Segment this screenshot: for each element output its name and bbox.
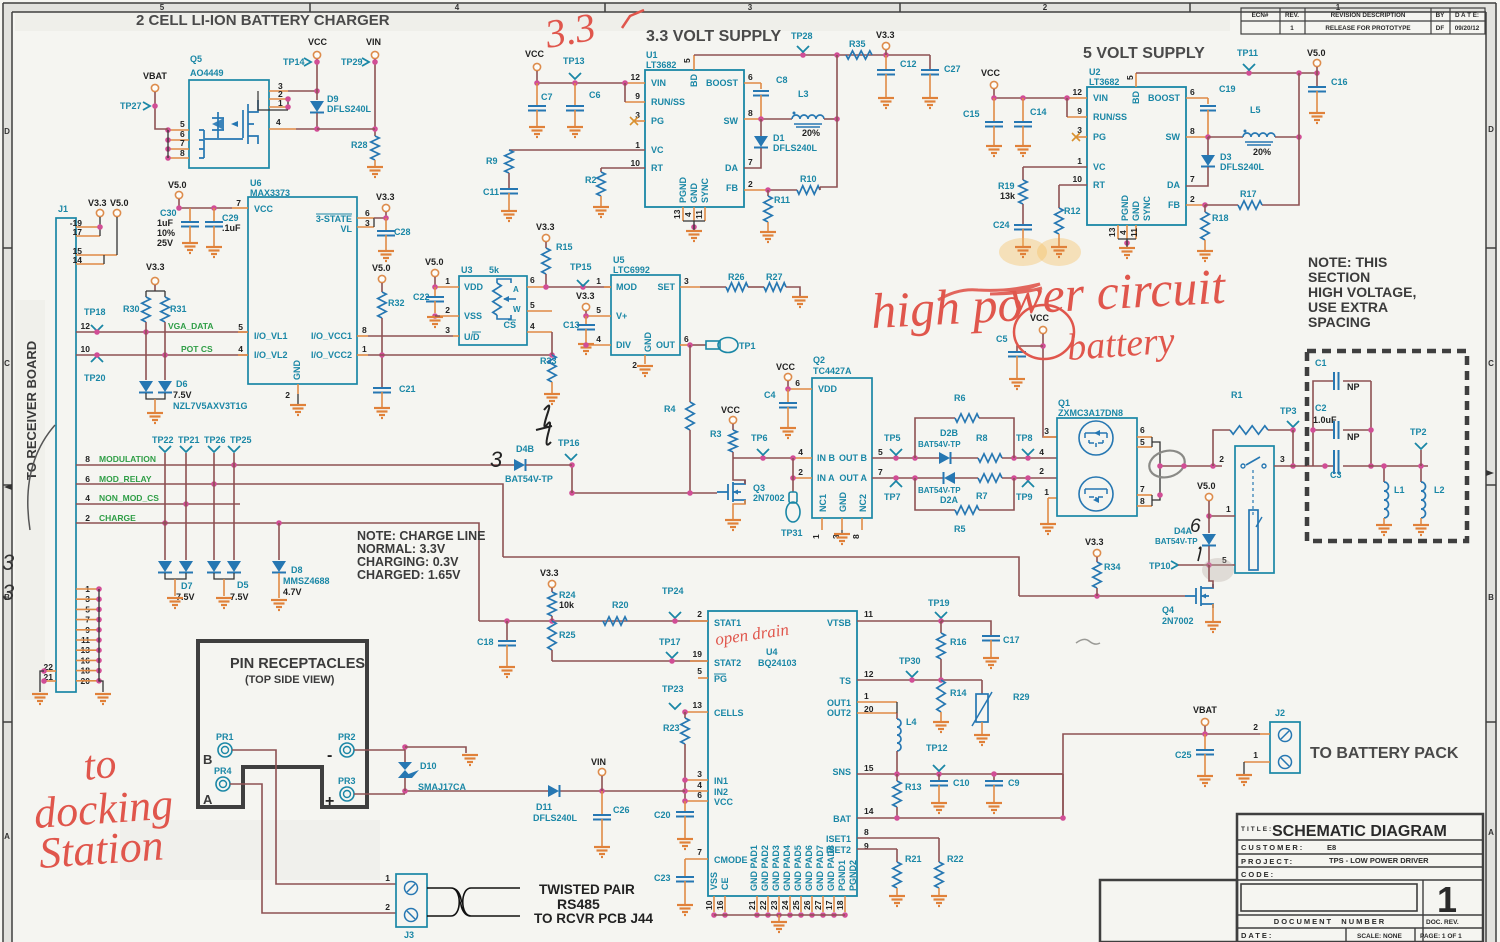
svg-text:C4: C4 (764, 390, 776, 400)
svg-text:PG: PG (651, 116, 664, 126)
svg-text:1: 1 (1437, 879, 1457, 920)
svg-text:V3.3: V3.3 (540, 568, 559, 578)
J1 bottom bracket to ground (99, 589, 103, 692)
ground below C12 (878, 98, 894, 108)
svg-text:A: A (513, 285, 519, 294)
svg-text:13k: 13k (1000, 191, 1016, 201)
U2 pins 13 4 11 (1117, 225, 1119, 239)
svg-text:1: 1 (864, 691, 869, 701)
svg-text:6: 6 (795, 378, 800, 388)
Q1 pins 7-8 bracket to out (1151, 495, 1153, 506)
ground below C5 (1009, 379, 1025, 389)
svg-text:3: 3 (684, 276, 689, 286)
highlight glow ground R12 (1037, 238, 1081, 266)
svg-text:L1: L1 (1394, 485, 1405, 495)
svg-text:D3: D3 (1220, 152, 1232, 162)
ground below C9 (986, 803, 1002, 813)
svg-text:D1: D1 (773, 133, 785, 143)
svg-text:DFLS240L: DFLS240L (327, 104, 372, 114)
wire D9 to pin4 row (296, 113, 317, 129)
wire U4 bottom pins join (714, 914, 845, 916)
svg-text:3: 3 (1280, 454, 1285, 464)
ground below C17 (983, 658, 999, 668)
svg-text:TP29: TP29 (341, 57, 363, 67)
svg-text:09/20/12: 09/20/12 (1455, 25, 1480, 32)
svg-text:1: 1 (385, 873, 390, 883)
wire C2 left vertical (1310, 427, 1316, 433)
svg-text:1: 1 (1077, 156, 1082, 166)
wire V3.3 to pins 19 17 (99, 217, 101, 236)
diode D1 DFLS240L (754, 136, 768, 147)
svg-text:MOD: MOD (616, 282, 637, 292)
svg-text:D2B: D2B (940, 428, 959, 438)
svg-text:5: 5 (682, 58, 692, 63)
svg-text:R28: R28 (351, 140, 368, 150)
svg-text:TO RECEIVER BOARD: TO RECEIVER BOARD (24, 341, 39, 480)
svg-text:RUN/SS: RUN/SS (651, 97, 685, 107)
svg-text:SMAJ17CA: SMAJ17CA (418, 782, 467, 792)
svg-text:DOC. REV.: DOC. REV. (1426, 919, 1459, 926)
svg-text:DFLS240L: DFLS240L (773, 143, 818, 153)
svg-text:OUT: OUT (656, 340, 676, 350)
wire J2 pin1 to ground (1243, 762, 1245, 774)
ground right of PR2 (462, 755, 478, 765)
svg-text:VIN: VIN (591, 757, 606, 767)
svg-text:GND PAD5: GND PAD5 (793, 845, 803, 891)
wire MOD row (548, 286, 611, 288)
svg-text:R3: R3 (710, 429, 722, 439)
svg-text:LT3682: LT3682 (1089, 77, 1119, 87)
svg-text:R21: R21 (905, 854, 922, 864)
svg-text:VIN: VIN (1093, 93, 1108, 103)
svg-text:NOTE: THIS: NOTE: THIS (1308, 254, 1387, 270)
wire VCC down to Q1 pin3 (1043, 334, 1057, 437)
svg-text:13: 13 (1107, 227, 1117, 237)
svg-text:10: 10 (631, 158, 641, 168)
svg-text:R2: R2 (585, 175, 597, 185)
svg-text:LT3682: LT3682 (646, 60, 676, 70)
dashed box high voltage section (1307, 351, 1467, 541)
svg-text:NP: NP (1347, 382, 1360, 392)
svg-text:8: 8 (864, 827, 869, 837)
svg-text:J2: J2 (1275, 708, 1285, 718)
ground below C6 (567, 127, 583, 137)
svg-text:ISET1: ISET1 (826, 834, 851, 844)
svg-text:1: 1 (596, 276, 601, 286)
ground below C4 (780, 428, 796, 438)
svg-text:NOTE: CHARGE LINE: NOTE: CHARGE LINE (357, 529, 485, 543)
svg-text:2: 2 (1253, 722, 1258, 732)
ground below C13 (578, 344, 594, 354)
svg-text:2: 2 (697, 609, 702, 619)
svg-text:CHARGE: CHARGE (99, 513, 136, 523)
wire V5.0 rail to U6 VCC (179, 199, 232, 208)
svg-text:SYNC: SYNC (700, 177, 710, 203)
ground below C11 (501, 211, 517, 221)
svg-text:TP20: TP20 (84, 373, 106, 383)
svg-text:8: 8 (1140, 496, 1145, 506)
IC U4 BQ24103 (708, 611, 857, 896)
svg-text:SECTION: SECTION (1308, 269, 1370, 285)
svg-text:10k: 10k (559, 600, 575, 610)
svg-text:TP8: TP8 (1016, 433, 1033, 443)
wire U1 top rail (694, 54, 930, 56)
svg-text:TP11: TP11 (1237, 48, 1258, 58)
svg-text:D6: D6 (176, 379, 188, 389)
svg-text:PR3: PR3 (338, 776, 356, 786)
svg-text:C29: C29 (222, 213, 239, 223)
svg-text:V5.0: V5.0 (1307, 48, 1326, 58)
svg-text:5: 5 (596, 305, 601, 315)
svg-text:RS485: RS485 (557, 896, 600, 912)
wire PR2 to ground (405, 747, 466, 753)
svg-text:TP25: TP25 (230, 435, 252, 445)
U3 pot symbol (493, 283, 501, 315)
svg-text:C25: C25 (1175, 750, 1192, 760)
wire L5 to V5 vertical (1275, 136, 1299, 138)
ground below C20 (677, 839, 693, 849)
svg-text:4: 4 (596, 334, 601, 344)
wire SET row R26 R27 (700, 286, 726, 288)
svg-text:U/D: U/D (464, 332, 480, 342)
svg-text:1: 1 (1290, 25, 1294, 32)
ground below Q4 (1205, 622, 1221, 632)
svg-text:5: 5 (1125, 75, 1135, 80)
svg-text:C: C (4, 359, 10, 368)
svg-text:I/O_VL1: I/O_VL1 (254, 331, 288, 341)
ground below C15 (986, 146, 1002, 156)
diode D5 dual 7.5V (207, 561, 221, 572)
svg-text:R19: R19 (998, 181, 1015, 191)
wire CHARGE (76, 523, 479, 621)
wire SNS to C9 col (991, 771, 997, 777)
svg-text:TP2: TP2 (1410, 427, 1427, 437)
svg-text:L5: L5 (1250, 105, 1261, 115)
svg-text:I/O_VCC2: I/O_VCC2 (311, 350, 352, 360)
svg-text:27: 27 (813, 900, 823, 910)
svg-text:2: 2 (1043, 3, 1048, 12)
wire TP26 to D5 (213, 453, 215, 560)
svg-text:BOOST: BOOST (706, 78, 739, 88)
svg-text:D A T E:: D A T E: (1455, 12, 1479, 19)
svg-text:VCC: VCC (721, 405, 741, 415)
wire U2 VIN to RUNSS jog (1066, 98, 1068, 117)
svg-text:6: 6 (1140, 425, 1145, 435)
svg-text:V3.3: V3.3 (876, 30, 895, 40)
svg-text:BOOST: BOOST (1148, 93, 1181, 103)
svg-text:U1: U1 (646, 50, 658, 60)
svg-text:ECN#: ECN# (1252, 12, 1269, 19)
ground below C10 (931, 803, 947, 813)
ground below C27 (922, 98, 938, 108)
svg-text:D7: D7 (181, 581, 193, 591)
wire D10 vertical (404, 747, 406, 762)
svg-text:V3.3: V3.3 (146, 262, 165, 272)
svg-text:GND PAD6: GND PAD6 (804, 845, 814, 891)
svg-text:CODE:: CODE: (1241, 870, 1275, 879)
ground below C22 (427, 317, 443, 327)
wire V3.3 to V+ (585, 311, 587, 316)
wire DIV (585, 343, 587, 345)
svg-text:2N7002: 2N7002 (753, 493, 785, 503)
ground below C14 (1015, 146, 1031, 156)
ground below D7 (174, 579, 176, 596)
svg-text:BAT54V-TP: BAT54V-TP (505, 474, 553, 484)
ground below R11 (767, 222, 769, 231)
svg-text:25: 25 (791, 900, 801, 910)
svg-text:3: 3 (445, 325, 450, 335)
svg-text:C6: C6 (589, 90, 601, 100)
svg-text:1: 1 (635, 140, 640, 150)
wire Q4 gate row (1019, 595, 1185, 597)
svg-text:C9: C9 (1008, 778, 1020, 788)
svg-text:E8: E8 (1327, 843, 1336, 852)
ground below R29 (974, 735, 990, 745)
svg-text:C21: C21 (399, 384, 416, 394)
wire VCC rail to VIN (537, 71, 625, 83)
svg-text:I/O_VCC1: I/O_VCC1 (311, 331, 352, 341)
svg-text:VCC: VCC (714, 797, 734, 807)
svg-text:4: 4 (238, 344, 243, 354)
svg-text:I/O_VL2: I/O_VL2 (254, 350, 288, 360)
svg-text:V3.3: V3.3 (576, 291, 595, 301)
wire V5.0 to VDD (434, 277, 436, 287)
svg-text:VCC: VCC (776, 362, 796, 372)
U6 pin 2 GND (297, 384, 299, 394)
revision table (1241, 8, 1485, 34)
svg-text:C2: C2 (1315, 403, 1327, 413)
svg-text:8: 8 (85, 454, 90, 464)
svg-text:R24: R24 (559, 590, 576, 600)
ground below D8 (278, 573, 280, 598)
svg-text:DATE:: DATE: (1241, 931, 1273, 940)
svg-text:TP13: TP13 (563, 56, 585, 66)
Q5 pin2-1 bracket (287, 99, 289, 107)
wire VBAT (155, 92, 168, 129)
svg-text:NC2: NC2 (858, 494, 868, 512)
svg-text:13: 13 (672, 209, 682, 219)
wire V5.0 to pins 15 14 (116, 217, 118, 255)
svg-text:TP23: TP23 (662, 684, 684, 694)
ground below C30 (182, 243, 198, 253)
svg-text:TO RCVR PCB J44: TO RCVR PCB J44 (534, 911, 654, 926)
wire R32 to C21 (381, 318, 383, 388)
svg-text:C7: C7 (541, 92, 553, 102)
svg-text:IN A: IN A (817, 473, 835, 483)
svg-text:CS: CS (503, 320, 516, 330)
svg-text:4: 4 (530, 321, 535, 331)
handwritten l mark (1198, 547, 1201, 561)
svg-text:PR4: PR4 (214, 766, 232, 776)
svg-text:LTC6992: LTC6992 (613, 265, 650, 275)
svg-text:2: 2 (285, 390, 290, 400)
svg-text:C5: C5 (996, 334, 1008, 344)
svg-text:PROJECT:: PROJECT: (1241, 857, 1294, 866)
svg-text:2: 2 (1039, 466, 1044, 476)
svg-text:1: 1 (445, 276, 450, 286)
svg-text:GND PAD2: GND PAD2 (760, 845, 770, 891)
svg-text:10: 10 (1073, 174, 1083, 184)
wire OUTB row to D2B (872, 457, 939, 459)
wire CELLS node (682, 709, 688, 715)
svg-text:OUT A: OUT A (839, 473, 867, 483)
wire D2B to R8 (951, 457, 978, 459)
svg-text:D8: D8 (291, 565, 303, 575)
svg-text:AO4449: AO4449 (190, 68, 224, 78)
svg-text:TS: TS (839, 676, 851, 686)
svg-text:R14: R14 (950, 688, 967, 698)
svg-text:VL: VL (340, 224, 352, 234)
highlight glow ground C24 (999, 238, 1047, 266)
note high voltage text (1308, 254, 1416, 330)
svg-text:4: 4 (85, 493, 90, 503)
svg-text:R12: R12 (1064, 206, 1081, 216)
ground below R18 (1204, 240, 1206, 250)
ground below C26 (594, 847, 610, 857)
svg-text:5: 5 (238, 322, 243, 332)
svg-text:19: 19 (693, 649, 703, 659)
svg-text:PR2: PR2 (338, 732, 356, 742)
wire IN2 row from D11 (560, 790, 685, 792)
wire Q3 gate row (572, 492, 717, 494)
wire R31 down to D6 (164, 355, 166, 380)
diode D7 dual 7.5V (158, 561, 172, 572)
svg-text:1: 1 (811, 534, 821, 539)
wire TP21 to D7 (185, 453, 187, 560)
svg-text:PG: PG (714, 674, 727, 684)
svg-text:7.5V: 7.5V (173, 390, 192, 400)
svg-text:NC1: NC1 (818, 494, 828, 512)
svg-text:C11: C11 (483, 187, 499, 197)
svg-text:REVISION DESCRIPTION: REVISION DESCRIPTION (1331, 12, 1406, 19)
svg-text:GND: GND (1131, 201, 1141, 222)
svg-text:3: 3 (490, 447, 503, 472)
svg-text:C16: C16 (1331, 77, 1348, 87)
svg-text:VCC: VCC (981, 68, 1001, 78)
wire VSS (435, 315, 440, 317)
ground below R33 (551, 382, 553, 393)
wire FB node 5V (1202, 202, 1208, 208)
title block (1100, 814, 1483, 942)
Q5 left pin bracket (167, 130, 169, 158)
svg-text:BAT54V-TP: BAT54V-TP (1155, 537, 1198, 546)
svg-text:U2: U2 (1089, 67, 1101, 77)
svg-text:17: 17 (824, 900, 834, 910)
svg-text:2: 2 (1219, 454, 1224, 464)
svg-text:R31: R31 (170, 304, 187, 314)
wire Q4 source to ground (1212, 604, 1214, 621)
ground below C18 (499, 667, 515, 677)
wire U1 BD to top rail (693, 55, 695, 70)
svg-text:R16: R16 (950, 637, 967, 647)
svg-text:12: 12 (864, 669, 874, 679)
svg-text:7: 7 (1190, 174, 1195, 184)
scan smudge near TP10 (1202, 558, 1234, 582)
wire V5 to D4A (1208, 501, 1210, 533)
svg-text:A: A (4, 832, 10, 841)
svg-text:RT: RT (651, 163, 663, 173)
svg-text:R23: R23 (663, 723, 680, 733)
svg-text:TP6: TP6 (751, 433, 768, 443)
svg-text:9: 9 (1077, 106, 1082, 116)
svg-text:4.7V: 4.7V (283, 587, 302, 597)
svg-text:2N7002: 2N7002 (1162, 616, 1194, 626)
svg-text:21: 21 (747, 900, 757, 910)
svg-text:CELLS: CELLS (714, 708, 744, 718)
border gray strips (3, 3, 1496, 12)
svg-text:R30: R30 (123, 304, 140, 314)
svg-text:R1: R1 (1231, 390, 1243, 400)
svg-text:TP7: TP7 (884, 492, 901, 502)
svg-text:R27: R27 (766, 272, 783, 282)
svg-text:R7: R7 (976, 491, 988, 501)
svg-text:3: 3 (697, 769, 702, 779)
wire V3.3 vertical x837 (820, 55, 837, 187)
svg-text:V5.0: V5.0 (110, 198, 129, 208)
ground below U5 (637, 366, 653, 376)
ground below L1 (1376, 525, 1392, 535)
svg-text:V5.0: V5.0 (425, 257, 444, 267)
svg-text:C19: C19 (1219, 84, 1236, 94)
svg-text:TP22: TP22 (152, 435, 174, 445)
svg-text:R25: R25 (559, 630, 576, 640)
svg-text:7: 7 (748, 157, 753, 167)
svg-text:C10: C10 (953, 778, 970, 788)
wire VIN to RUNSS jog (624, 83, 626, 102)
svg-text:22: 22 (758, 900, 768, 910)
testpoint TP1 (706, 341, 720, 349)
svg-text:VIN: VIN (366, 37, 381, 47)
svg-text:CUSTOMER:: CUSTOMER: (1241, 843, 1304, 852)
wire BAT junction (1060, 815, 1066, 821)
svg-text:3: 3 (2, 580, 15, 605)
svg-text:.1uF: .1uF (222, 223, 241, 233)
U4 bottom pins (713, 896, 715, 912)
svg-text:7: 7 (236, 198, 241, 208)
svg-text:GND PAD1: GND PAD1 (749, 845, 759, 891)
svg-text:C18: C18 (477, 637, 494, 647)
svg-text:R13: R13 (905, 782, 922, 792)
svg-text:10%: 10% (157, 228, 175, 238)
ground after R27 (792, 297, 808, 307)
wire NON_MOD_CS (76, 503, 240, 505)
svg-text:11: 11 (1129, 228, 1139, 237)
svg-text:C17: C17 (1003, 635, 1020, 645)
svg-text:D4B: D4B (516, 444, 535, 454)
wire Q5 pin3 to TP14 node (288, 90, 317, 92)
ground below U1 (693, 221, 695, 231)
svg-text:7: 7 (1140, 484, 1145, 494)
wire R27 to ground (786, 287, 800, 296)
transistor Q4 2N7002 (1185, 584, 1213, 608)
svg-text:SYNC: SYNC (1142, 195, 1152, 221)
svg-text:V+: V+ (616, 311, 627, 321)
svg-text:2: 2 (748, 179, 753, 189)
svg-text:FB: FB (1168, 200, 1180, 210)
svg-text:5: 5 (530, 300, 535, 310)
svg-text:R34: R34 (1104, 562, 1121, 572)
wire D4A to TP10 row (1208, 546, 1210, 565)
svg-text:4: 4 (455, 3, 460, 12)
svg-text:GND PAD4: GND PAD4 (782, 845, 792, 891)
svg-text:V3.3: V3.3 (88, 198, 107, 208)
svg-text:C23: C23 (654, 873, 671, 883)
svg-text:GND: GND (689, 183, 699, 204)
svg-text:1: 1 (1044, 487, 1049, 497)
svg-text:1: 1 (1226, 504, 1231, 514)
svg-text:6: 6 (684, 334, 689, 344)
svg-text:NON_MOD_CS: NON_MOD_CS (99, 493, 159, 503)
